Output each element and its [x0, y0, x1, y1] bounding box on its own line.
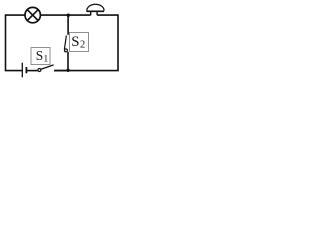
wire: middle branch lower [67, 52, 69, 71]
battery BT1 short plate [25, 67, 27, 73]
bell B1 base [86, 10, 104, 12]
wire: middle branch upper [67, 15, 69, 35]
bell B1 right terminal stub [96, 11, 98, 15]
label box S1 [31, 48, 50, 65]
switch S1 pivot circle [38, 69, 41, 72]
node A (top junction dot) [67, 14, 70, 17]
wire: battery to switch S1 [27, 70, 38, 72]
wire: bottom-right segment [54, 70, 119, 72]
wire: bottom-left to battery [5, 70, 22, 72]
wire: switch S1 to bottom junction [54, 70, 68, 72]
node B (bottom junction dot) [66, 69, 69, 72]
label box S2 [69, 32, 88, 51]
bell B1 left terminal stub [90, 11, 92, 15]
bell B1 dome [87, 4, 104, 10]
wire: left vertical [5, 15, 7, 71]
battery BT1 long plate [21, 63, 23, 78]
wire: lamp to bell segment [40, 14, 90, 16]
switch S2 pivot circle [64, 49, 67, 52]
switch S2 blade [64, 35, 66, 49]
wire: right vertical [117, 14, 119, 70]
lamp L1 [25, 7, 40, 22]
switch S1 blade [41, 65, 54, 69]
wire: bell to top-right corner [97, 14, 118, 16]
wire: top-left segment to lamp [5, 14, 25, 16]
